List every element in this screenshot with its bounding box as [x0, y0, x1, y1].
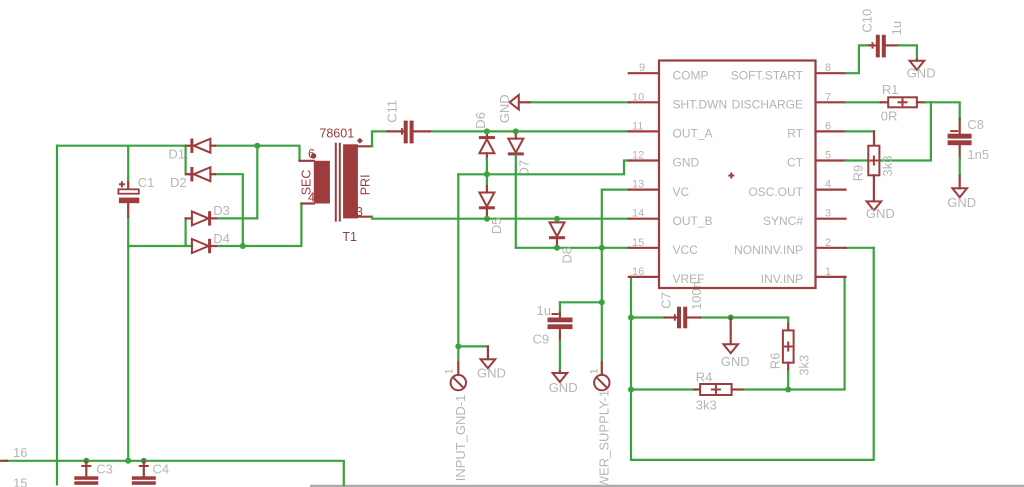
svg-text:POWER_SUPPLY-1: POWER_SUPPLY-1 [597, 390, 612, 487]
pin 16 stub of off-canvas part [0, 460, 7, 462]
svg-text:C11: C11 [385, 100, 400, 123]
node: D5 at OUT_B row [484, 216, 490, 222]
wire: D6 anode down to GND row [486, 159, 488, 174]
svg-text:RT: RT [787, 127, 803, 141]
svg-text:1u: 1u [889, 21, 904, 35]
pin 3 SYNC# [816, 218, 846, 220]
PRI pin 1 (top) [358, 145, 372, 147]
frame border (bottom) [310, 485, 1024, 487]
transformer T1 [300, 127, 373, 245]
node: C1 lead at bottom rail [125, 458, 131, 464]
svg-text:4: 4 [825, 179, 831, 191]
SEC pin 6 [300, 160, 314, 162]
svg-text:OUT_B: OUT_B [673, 214, 713, 228]
svg-text:1u: 1u [537, 303, 551, 318]
capacitor C4 [132, 461, 169, 485]
svg-text:1: 1 [444, 368, 456, 374]
svg-text:D6: D6 [473, 112, 488, 129]
svg-text:4: 4 [308, 191, 315, 205]
wire: pin 6 to R9 top [846, 130, 875, 132]
svg-text:D5: D5 [489, 217, 504, 234]
ground GND (R9) [866, 201, 895, 221]
svg-text:GND: GND [673, 156, 700, 170]
diode D2 [170, 167, 215, 190]
wire: pin 1 INV.INP down to R4 row [742, 277, 844, 390]
node: supply at C9 row [599, 299, 605, 305]
svg-text:GND: GND [477, 366, 506, 381]
ground GND (input) [477, 346, 506, 380]
svg-text:3k3: 3k3 [696, 398, 717, 413]
svg-text:C3: C3 [96, 462, 113, 477]
node: C4 junction [141, 458, 147, 464]
svg-text:15: 15 [13, 476, 27, 487]
ground GND (C7 node) [721, 318, 750, 370]
svg-text:2: 2 [825, 237, 831, 249]
wire: OUT_A row C11 to IC pin 11 [430, 130, 629, 132]
svg-text:1: 1 [825, 266, 831, 278]
svg-text:VREF: VREF [673, 272, 705, 286]
node: D8 at VCC row [554, 245, 560, 251]
pin 2 NONINV.INP [816, 247, 846, 249]
capacitor C7 [659, 281, 704, 328]
pin 12 GND [629, 159, 659, 161]
svg-text:13: 13 [632, 179, 644, 191]
svg-text:DISCHARGE: DISCHARGE [732, 98, 803, 112]
SEC winding block [314, 161, 330, 204]
wire: C8 bottom to GND [959, 158, 961, 176]
svg-text:VCC: VCC [673, 243, 699, 257]
svg-text:12: 12 [632, 150, 644, 162]
core lines [335, 143, 337, 222]
diode D8 [549, 219, 575, 264]
node: C3 junction [83, 458, 89, 464]
capacitor C1 (polarized) [118, 175, 154, 217]
wire: IC pin10 row to GND symbol [528, 101, 628, 103]
svg-text:GND: GND [497, 94, 512, 123]
svg-text:C8: C8 [967, 117, 984, 132]
pin 7 DISCHARGE [816, 101, 846, 103]
svg-text:6: 6 [825, 120, 831, 132]
svg-text:9: 9 [639, 62, 645, 74]
resistor R9 [851, 131, 896, 201]
capacitor C3 [74, 461, 113, 485]
svg-text:16: 16 [632, 266, 644, 278]
svg-text:0R: 0R [881, 109, 898, 124]
svg-text:15: 15 [632, 237, 644, 249]
ground GND (at SHT.DWN), rotated [497, 94, 530, 123]
svg-text:COMP: COMP [673, 68, 709, 82]
diode D6 [473, 112, 495, 159]
svg-text:1n5: 1n5 [967, 147, 989, 162]
pin 1 INV.INP [816, 276, 846, 278]
svg-text:C7: C7 [659, 292, 674, 309]
wire: R4 left to VREF vertical [631, 388, 695, 390]
node: supply at VCC row [599, 245, 605, 251]
svg-text:7: 7 [825, 91, 831, 103]
pin 6 RT [816, 130, 846, 132]
wire: pin 7 to R1 [846, 101, 881, 103]
node: R6 at R4 row [785, 387, 791, 393]
node: input gnd tap [455, 343, 461, 349]
wire: GND row down to INPUT_GND connector [457, 174, 459, 362]
svg-text:D8: D8 [560, 247, 575, 264]
svg-text:OSC.OUT: OSC.OUT [748, 185, 803, 199]
node: D6 at OUT_A [484, 128, 490, 134]
svg-text:16: 16 [13, 445, 27, 460]
wire: tap to input GND symbol [458, 345, 488, 347]
pin 16 VREF [629, 276, 659, 278]
svg-text:14: 14 [632, 208, 644, 220]
svg-text:R1: R1 [882, 82, 899, 97]
node: D6/D5 at GND row [484, 171, 490, 177]
svg-text:SYNC#: SYNC# [763, 214, 803, 228]
resistor R4 [695, 370, 743, 413]
pin 11 OUT_A [629, 130, 659, 132]
svg-text:R4: R4 [696, 370, 713, 385]
node: D2 anode / D4 cathode junction [240, 243, 246, 249]
wire: C1 bottom lead down to bottom rail [127, 217, 129, 461]
pin 5 CT [816, 159, 846, 161]
SEC polarity dot [311, 153, 316, 158]
svg-text:D4: D4 [213, 231, 230, 246]
svg-text:C10: C10 [860, 9, 875, 33]
+ mark center [728, 175, 734, 177]
svg-text:R9: R9 [851, 165, 866, 182]
pin 8 SOFT.START [816, 72, 846, 74]
wire: CT branch down and to pin 5 [846, 102, 931, 160]
svg-text:R6: R6 [768, 353, 783, 370]
svg-text:5: 5 [825, 150, 831, 162]
IC U1 box [659, 61, 816, 289]
svg-text:VC: VC [673, 185, 690, 199]
PRI pin 3 (bottom) [358, 216, 372, 218]
svg-text:D2: D2 [170, 175, 187, 190]
wire: D4 row from C1 bottom to SEC pin 4 riser [128, 245, 192, 247]
wire: GND row (IC pin12) with jog [458, 161, 629, 175]
diode D3 [186, 203, 230, 226]
diode D5 [479, 174, 504, 234]
connector POWER_SUPPLY-1 [589, 363, 612, 487]
resistor R6 [768, 324, 812, 376]
capacitor C11 [385, 100, 430, 143]
svg-text:1: 1 [589, 368, 601, 374]
wire: C9 bottom lead [559, 341, 561, 372]
svg-text:3: 3 [356, 205, 363, 219]
svg-text:11: 11 [632, 120, 643, 132]
wire: D1/D2 cathode link vertical [186, 146, 191, 175]
resistor R1 [881, 82, 925, 124]
svg-text:SOFT.START: SOFT.START [731, 68, 804, 82]
ground GND (C9) [549, 372, 578, 396]
svg-text:SHT.DWN: SHT.DWN [673, 98, 728, 112]
diode D1 [168, 139, 215, 162]
node: C7/GND tap [728, 315, 734, 321]
wire: bottom rail from pin 16 stub to riser [7, 461, 344, 485]
svg-text:C4: C4 [153, 462, 170, 477]
svg-text:GND: GND [947, 195, 976, 210]
pin 10 SHT.DWN [629, 101, 659, 103]
wire: bottom feedback row to pin2 riser [631, 248, 874, 460]
pin 9 COMP [629, 72, 659, 74]
svg-text:3k3: 3k3 [880, 156, 895, 177]
capacitor C10 [860, 9, 905, 58]
wire: D2 anode to vertical drop to D4 row [215, 174, 243, 246]
svg-text:INPUT_GND-1: INPUT_GND-1 [453, 395, 468, 482]
capacitor C9 [533, 303, 573, 347]
wire: D3/D4 anode link vertical [185, 218, 187, 246]
wire: + rail top row from left rail to transformer SEC pin 6 [57, 145, 186, 147]
svg-text:T1: T1 [342, 230, 357, 244]
node: VREF at R4 row [628, 387, 634, 393]
pin 15 VCC [629, 247, 659, 249]
wire: R1 right to C8 riser [925, 102, 960, 118]
wire: pin 8 to C10 [846, 45, 870, 73]
node: VREF at C7 row [628, 315, 634, 321]
wire: C7 right to R6 top [700, 318, 788, 325]
wire: D7 cathode down to VCC row corner [515, 155, 517, 247]
diode D4 [192, 231, 230, 253]
PRI winding block [343, 144, 358, 218]
node: D7 at OUT_A [513, 128, 519, 134]
capacitor C8 [948, 117, 990, 162]
svg-text:GND: GND [907, 66, 936, 81]
svg-text:3: 3 [825, 208, 831, 220]
svg-text:PRI: PRI [359, 174, 373, 195]
svg-text:10: 10 [632, 91, 644, 103]
wire: D1 anode vertical down to D3 cathode row [216, 146, 257, 219]
wire: PRI pin1 jog up to OUT_A row [372, 131, 387, 146]
svg-text:GND: GND [866, 206, 895, 221]
wire: PRI pin3 to OUT_B row to IC pin 14 [372, 217, 629, 219]
svg-text:NONINV.INP: NONINV.INP [734, 243, 803, 257]
wire: C9 top row [560, 301, 602, 303]
ground GND (C8) [947, 176, 976, 210]
svg-text:D1: D1 [168, 147, 185, 162]
wire: D1 anode to node, over to SEC pin6 drop [215, 146, 299, 161]
pin 13 VC [629, 189, 659, 191]
wire: R6 bottom to R4 row [787, 369, 789, 390]
connector INPUT_GND-1 [444, 363, 469, 482]
pin 4 OSC.OUT [816, 189, 846, 191]
node: D8 at OUT_B row [554, 216, 560, 222]
pin 14 OUT_B [629, 218, 659, 220]
ground GND (C10) [907, 60, 936, 81]
svg-text:D3: D3 [213, 203, 230, 218]
wire: C9 top lead [559, 302, 561, 312]
SEC pin 4 [301, 202, 313, 204]
svg-text:C1: C1 [138, 175, 155, 190]
svg-text:OUT_A: OUT_A [673, 127, 713, 141]
svg-text:GND: GND [721, 354, 750, 369]
svg-text:C9: C9 [533, 332, 550, 347]
svg-text:3k3: 3k3 [797, 355, 812, 376]
svg-text:8: 8 [825, 62, 831, 74]
wire: C10 right to GND [899, 45, 917, 59]
wire: C7 left [631, 316, 665, 318]
svg-text:CT: CT [787, 156, 804, 170]
svg-text:78601: 78601 [319, 127, 354, 141]
wire: C1 top lead [127, 146, 129, 183]
wire: left vertical rail [56, 146, 58, 485]
diode D7 [508, 131, 532, 176]
svg-text:INV.INP: INV.INP [761, 272, 803, 286]
wire: pin 2 NONINV.INP to riser [846, 247, 874, 249]
wire: VREF vertical from pin 16 [630, 277, 632, 460]
wire: VCC row to IC pin 15 [516, 247, 629, 249]
PRI polarity diamond [357, 138, 363, 144]
wire: VC pin13 wire and supply vertical [602, 190, 629, 363]
svg-text:GND: GND [549, 380, 578, 395]
svg-text:6: 6 [308, 147, 315, 161]
node: D1 anode junction [254, 143, 260, 149]
